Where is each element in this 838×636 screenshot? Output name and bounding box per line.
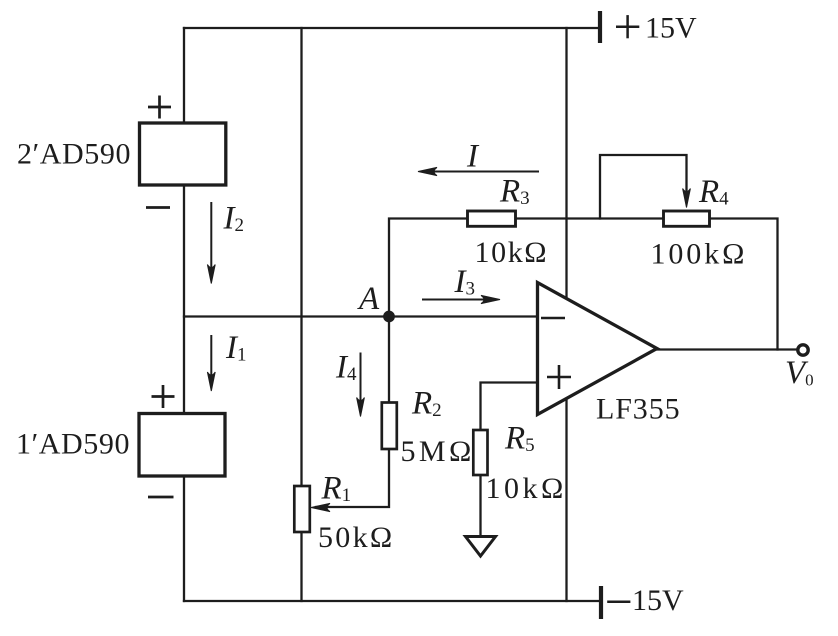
wire R2 bottom to R1 wiper [316,449,389,507]
svg-text:15V: 15V [645,12,697,45]
resistor R3 body [468,211,516,226]
wire R3 to R4 [516,217,664,219]
battery plus sign above 2'AD590 [148,96,171,119]
svg-text:15V: 15V [632,584,684,617]
battery minus sign below 2'AD590 [146,206,170,209]
R1 wiper arrow (left) [311,503,330,511]
op-amp inverting pin minus sign [541,317,565,320]
current arrow I4 (down) [357,353,365,417]
wire R2 from node A [388,317,390,403]
current arrow I (left) [418,167,539,175]
wire top rail [184,27,600,29]
output terminal circle [798,345,808,355]
wire supply vertical [565,28,567,601]
wire R5 to ground [479,475,481,536]
wire R1 branch vertical [300,28,302,601]
wire node A horizontal to op-amp inverting input [184,315,538,317]
ground symbol [466,537,496,557]
wire R4 right to output vertical [710,219,778,350]
label -15V minus sign [607,600,630,603]
op-amp U1 LF355 triangle [538,283,658,415]
potentiometer R1 body [294,486,310,532]
wire op-amp output [656,348,798,350]
current arrow I1 (down) [207,335,215,391]
resistor R2 body [382,403,397,450]
battery plus sign above 1'AD590 [152,385,175,408]
svg-text:1′AD590: 1′AD590 [16,428,130,461]
battery minus sign below 1'AD590 [148,496,174,499]
svg-text:100kΩ: 100kΩ [651,238,748,271]
label +15V plus sign [616,15,639,38]
R4 wiper arrow (down) [683,189,691,208]
svg-text:I: I [466,139,480,175]
power tick -15V [599,586,603,619]
wire left vertical [183,28,185,601]
wire bottom rail [184,600,598,602]
svg-text:5MΩ: 5MΩ [401,435,475,468]
node A junction dot [383,311,395,323]
svg-text:2′AD590: 2′AD590 [17,138,131,171]
svg-text:50kΩ: 50kΩ [318,521,395,554]
power tick +15V [598,11,602,43]
wire R4 wiper loop [600,155,687,219]
svg-text:A: A [357,281,380,317]
op-amp noninverting pin plus sign [547,365,571,389]
resistor R4 body [664,211,710,226]
svg-text:LF355: LF355 [596,393,681,426]
wire op-amp noninverting input [481,383,538,431]
svg-text:10kΩ: 10kΩ [475,236,549,269]
current arrow I3 (right) [422,295,500,303]
AD590 sensor 1' box [139,414,225,477]
AD590 sensor 2' box [140,123,226,185]
resistor R5 body [473,430,487,475]
wire node A up to R3 [389,219,468,317]
current arrow I2 (down) [207,202,215,284]
svg-text:10kΩ: 10kΩ [486,472,567,505]
